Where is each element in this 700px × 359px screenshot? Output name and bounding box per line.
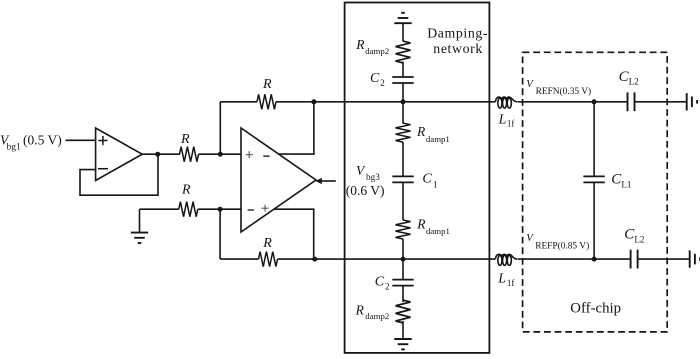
wire C2 to Rdamp2 bottom [402, 286, 404, 302]
ground (top right, rotated) [687, 93, 697, 110]
wire to node B [199, 153, 242, 155]
svg-text:1f: 1f [507, 119, 515, 129]
svg-text:1: 1 [433, 179, 438, 189]
svg-text:damp2: damp2 [365, 46, 389, 56]
capacitor CL1 [583, 171, 631, 189]
svg-text:2: 2 [380, 78, 385, 88]
damping-network title [427, 26, 488, 56]
svg-text:network: network [433, 41, 483, 56]
svg-text:damp1: damp1 [426, 134, 450, 144]
wire resistor to node E [278, 258, 315, 260]
node F (damping top rail) [401, 99, 406, 104]
wire to node C [198, 208, 241, 210]
svg-text:C: C [375, 275, 385, 290]
svg-text:R: R [262, 236, 272, 251]
Vbg3 arrow into U2 [315, 178, 335, 184]
wire bottom rail (node E to inductor) [315, 258, 496, 260]
svg-text:(0.6 V): (0.6 V) [346, 183, 385, 198]
inductor L1f (bottom) [496, 254, 518, 287]
wire feedback leg top [219, 102, 221, 154]
svg-text:R: R [181, 183, 191, 198]
svg-text:R: R [262, 77, 272, 92]
resistor R (top input) [180, 132, 199, 162]
capacitor C1 [392, 172, 437, 190]
svg-text:V: V [526, 232, 534, 244]
node G (damping bottom rail) [401, 257, 406, 262]
wire Rdamp1 to rail [402, 239, 404, 259]
svg-text:damp2: damp2 [365, 311, 389, 321]
svg-text:bg3: bg3 [366, 172, 380, 182]
wire bottom rail (inductor to CL2) [518, 258, 631, 260]
ground (left) [131, 209, 148, 243]
svg-text:V: V [526, 78, 534, 90]
wire Rdamp2 to C2 top [402, 62, 404, 78]
wire U1 output [142, 153, 180, 155]
svg-text:bg1: bg1 [7, 142, 22, 152]
wire Rdamp2 to ground [402, 321, 404, 339]
wire CL2 to ground (bottom right) [638, 258, 690, 260]
op-amp U2 [241, 128, 316, 232]
svg-text:C: C [370, 71, 380, 86]
wire feedback leg bottom [219, 209, 221, 259]
resistor R (top feedback) [257, 77, 276, 110]
off-chip box (dashed) [523, 52, 668, 332]
wire U1 feedback loop [80, 154, 158, 195]
wire rail to Rdamp1 top [402, 102, 404, 124]
capacitor CL2 (top) [619, 69, 639, 111]
svg-text:2: 2 [385, 282, 390, 292]
ground (bottom right, rotated) [690, 250, 700, 267]
svg-text:R: R [355, 37, 365, 52]
node U1 output junction [155, 152, 160, 157]
wire CL1 bottom leg [593, 182, 595, 259]
svg-text:REFN(0.35 V): REFN(0.35 V) [536, 86, 592, 97]
svg-text:R: R [416, 124, 426, 139]
wire ground to resistor [140, 208, 179, 210]
wire rail to C2 bottom [402, 259, 404, 280]
svg-text:(0.5 V): (0.5 V) [23, 132, 62, 147]
svg-text:REFP(0.85 V): REFP(0.85 V) [535, 241, 589, 252]
resistor Rdamp1 (top) [396, 123, 450, 144]
wire rail to resistor bottom feedback [220, 258, 258, 260]
capacitor C2 (top) [370, 71, 414, 88]
svg-text:Off-chip: Off-chip [570, 301, 621, 317]
node VREFN junction [592, 99, 597, 104]
node Vbg3 label [346, 163, 385, 198]
wire bottom output tap [274, 209, 314, 259]
wire Vbg1 to op-amp U1 [66, 139, 96, 141]
damping-network box [345, 3, 490, 353]
wire rail to resistor top feedback [220, 101, 257, 103]
node VREFP label [526, 232, 589, 252]
inductor L1f (top) [496, 97, 518, 129]
node VREFP junction [592, 257, 597, 262]
svg-text:damp1: damp1 [426, 226, 450, 236]
node C [218, 207, 223, 212]
svg-text:C: C [422, 172, 432, 187]
svg-text:L: L [497, 272, 506, 287]
resistor R (bottom feedback) [259, 236, 278, 267]
op-amp U1 [96, 128, 143, 181]
node Vbg1 label [0, 132, 62, 152]
wire C1 to Rdamp1 bottom [402, 182, 404, 220]
wire top output tap [279, 102, 314, 154]
resistor Rdamp1 (bottom) [396, 216, 450, 239]
wire Rdamp1 to C1 [402, 142, 404, 176]
resistor Rdamp2 (bottom) [355, 300, 411, 323]
capacitor C2 (bottom) [375, 275, 414, 292]
wire top rail (inductor to CL2) [518, 101, 628, 103]
svg-text:V: V [356, 163, 366, 178]
svg-text:L2: L2 [629, 77, 639, 87]
svg-text:L: L [498, 113, 507, 128]
ground (damping bottom) [394, 339, 411, 349]
wire top rail (node D to inductor) [314, 101, 496, 103]
svg-text:R: R [416, 216, 426, 231]
svg-text:R: R [355, 302, 365, 317]
svg-text:R: R [180, 132, 190, 147]
resistor R (bottom input) [179, 183, 198, 217]
svg-text:1f: 1f [507, 278, 515, 288]
node B [218, 152, 223, 157]
capacitor CL2 (bottom) [624, 227, 644, 269]
node E [312, 257, 317, 262]
svg-text:L2: L2 [634, 235, 644, 245]
svg-text:Damping-: Damping- [427, 26, 488, 41]
ground (damping top, inverted) [394, 13, 411, 42]
wire CL1 top leg [593, 102, 595, 177]
svg-text:L1: L1 [621, 179, 631, 189]
wire CL2 to ground (top right) [635, 101, 687, 103]
node D [311, 99, 316, 104]
resistor Rdamp2 (top) [355, 37, 410, 63]
wire resistor to node D [276, 101, 314, 103]
node VREFN label [526, 78, 591, 97]
wire C2 to rail [402, 83, 404, 102]
